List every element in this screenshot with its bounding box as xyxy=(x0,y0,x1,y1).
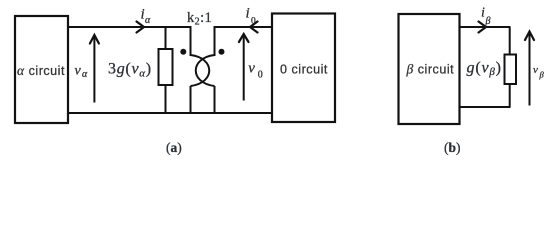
svg-text:v: v xyxy=(75,64,82,79)
svg-text:i: i xyxy=(246,6,250,22)
svg-text:(a): (a) xyxy=(166,140,182,155)
svg-text:0 circuit: 0 circuit xyxy=(280,63,328,77)
svg-text:0: 0 xyxy=(258,70,263,81)
svg-text:i: i xyxy=(481,6,485,21)
svg-text:g(vβ): g(vβ) xyxy=(467,60,502,79)
svg-text:v: v xyxy=(533,64,538,76)
svg-text:0: 0 xyxy=(251,17,256,27)
svg-text:β: β xyxy=(539,70,545,80)
svg-text:β circuit: β circuit xyxy=(406,62,455,77)
svg-text:3g(vα): 3g(vα) xyxy=(108,61,152,80)
svg-text:β: β xyxy=(485,16,491,27)
svg-text:(b): (b) xyxy=(444,140,461,155)
svg-text:α: α xyxy=(82,69,88,80)
svg-text:k2:1: k2:1 xyxy=(187,10,212,28)
svg-text:α circuit: α circuit xyxy=(17,63,65,78)
svg-text:v: v xyxy=(248,61,255,77)
svg-text:α: α xyxy=(145,15,151,26)
